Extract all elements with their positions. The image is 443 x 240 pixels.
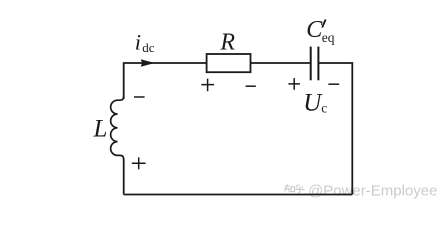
resistor polarity plus sign (left) (201, 79, 214, 92)
svg-text:dc: dc (142, 40, 155, 55)
inductor L coil (111, 96, 124, 159)
wire: left side lower segment (123, 159, 125, 195)
inductor polarity plus sign (bottom) (132, 157, 146, 169)
svg-text:i: i (135, 29, 141, 54)
svg-text:eq: eq (322, 30, 335, 45)
wire: resistor right pin to capacitor left plate (251, 62, 311, 64)
capacitor C'eq left plate (310, 47, 312, 81)
svg-text:@Power-Employee: @Power-Employee (308, 182, 437, 199)
svg-text:c: c (321, 100, 327, 115)
svg-text:U: U (303, 89, 323, 116)
wire: left side upper + top segment to resistor left pin (124, 63, 207, 99)
capacitor C'eq right plate (317, 47, 319, 81)
capacitor polarity minus sign (right) (328, 83, 339, 85)
watermark "知乎" glyphs (284, 184, 305, 192)
svg-text:L: L (93, 115, 108, 142)
svg-text:C: C (306, 17, 323, 43)
svg-text:R: R (219, 30, 235, 56)
resistor polarity minus sign (right) (246, 85, 256, 87)
label prime mark of C'eq (323, 20, 326, 27)
inductor polarity minus sign (top) (134, 96, 145, 98)
resistor R body (207, 54, 251, 72)
capacitor polarity plus sign (left) (288, 78, 300, 90)
wire: bottom segment (124, 194, 353, 196)
current direction arrowhead for i_dc (141, 59, 155, 67)
wire: capacitor right plate to top-right corner and right side down (318, 63, 352, 195)
